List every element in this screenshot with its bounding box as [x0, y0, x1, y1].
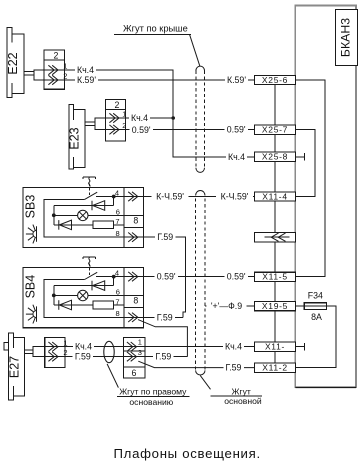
svg-text:SB3: SB3 [24, 195, 38, 219]
svg-text:X19-5: X19-5 [262, 301, 288, 311]
svg-text:SB4: SB4 [24, 275, 38, 299]
svg-text:7: 7 [115, 217, 119, 226]
svg-text:Жгут по крыше: Жгут по крыше [123, 23, 188, 33]
svg-text:основной: основной [224, 396, 262, 406]
svg-text:0.59': 0.59' [157, 272, 176, 282]
svg-text:Плафоны освещения.: Плафоны освещения. [114, 446, 261, 461]
svg-text:0.59': 0.59' [132, 125, 151, 135]
svg-text:Жгут: Жгут [232, 386, 251, 396]
svg-text:Кч.4: Кч.4 [225, 342, 242, 352]
svg-text:Г.59: Г.59 [157, 232, 173, 242]
svg-text:К.59': К.59' [77, 75, 96, 85]
svg-text:8: 8 [116, 229, 120, 238]
svg-text:2: 2 [54, 51, 59, 61]
svg-text:1: 1 [122, 110, 126, 119]
svg-text:1: 1 [138, 338, 142, 347]
svg-text:Г.59: Г.59 [155, 352, 171, 362]
svg-text:4: 4 [115, 188, 119, 197]
svg-text:6: 6 [116, 207, 120, 216]
svg-text:0.59': 0.59' [227, 125, 246, 135]
svg-text:Е22: Е22 [6, 52, 20, 74]
svg-text:F34: F34 [308, 290, 323, 300]
svg-text:X11-2: X11-2 [262, 363, 288, 373]
svg-text:3: 3 [138, 348, 142, 357]
svg-text:2: 2 [122, 121, 126, 130]
svg-text:6: 6 [132, 368, 137, 378]
svg-text:Г.59: Г.59 [75, 352, 91, 362]
svg-text:К.59': К.59' [227, 75, 246, 85]
svg-text:X11-5: X11-5 [262, 271, 288, 281]
svg-text:Г.59: Г.59 [157, 312, 173, 322]
svg-text:Кч.4: Кч.4 [131, 113, 148, 123]
svg-text:X25-6: X25-6 [262, 75, 288, 85]
svg-text:X25-7: X25-7 [262, 125, 288, 135]
svg-text:1: 1 [63, 62, 67, 71]
svg-text:основанию: основанию [129, 397, 173, 407]
svg-text:1: 1 [63, 338, 67, 347]
svg-text:Жгут по правому: Жгут по правому [119, 387, 187, 397]
svg-text:X25-8: X25-8 [262, 152, 288, 162]
svg-text:Е27: Е27 [7, 356, 21, 378]
svg-text:X11-4: X11-4 [262, 191, 288, 201]
svg-text:Кч.4: Кч.4 [228, 152, 245, 162]
svg-text:Кч.4: Кч.4 [75, 342, 92, 352]
svg-text:К-Ч.59': К-Ч.59' [156, 192, 184, 202]
svg-text:Кч.4: Кч.4 [77, 65, 94, 75]
svg-text:2: 2 [115, 100, 120, 110]
svg-text:'+'—Ф.9: '+'—Ф.9 [211, 301, 242, 311]
svg-text:0.59': 0.59' [227, 272, 246, 282]
svg-text:8: 8 [133, 216, 138, 226]
svg-text:2: 2 [63, 72, 67, 81]
svg-text:Г.59: Г.59 [226, 363, 242, 373]
svg-text:Е23: Е23 [67, 127, 81, 149]
svg-text:2: 2 [63, 348, 67, 357]
svg-text:К-Ч.59': К-Ч.59' [221, 192, 249, 202]
svg-text:БКАН3: БКАН3 [338, 18, 352, 57]
svg-text:8А: 8А [311, 312, 322, 322]
svg-text:X11-: X11- [265, 342, 285, 352]
